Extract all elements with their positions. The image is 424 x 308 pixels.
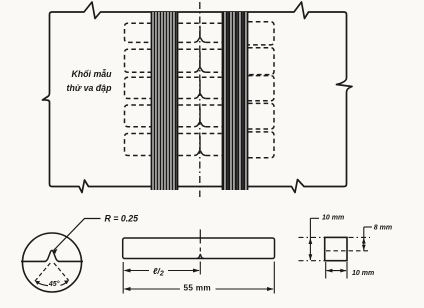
- specimen row 2 right box (dashed): [248, 48, 274, 75]
- detail notch profile: [45, 250, 59, 261]
- 10 mm left dimension: [299, 218, 325, 260]
- svg-text:8 mm: 8 mm: [374, 225, 392, 232]
- notch depth dashed line: [326, 250, 369, 252]
- specimen row 4 right box (dashed): [248, 103, 274, 129]
- notch symbol row 3 (bump on centerline): [194, 80, 205, 99]
- 8 mm right dimension: [349, 227, 373, 251]
- specimen row 4 left box (dashed): [125, 105, 152, 127]
- dimension 55 mm: [125, 262, 275, 294]
- specimen row 2 middle edges (dashed): [179, 48, 222, 50]
- bar centerline ticks: [199, 230, 201, 244]
- plate centerline (dash-dot vertical): [199, 2, 201, 197]
- svg-text:55 mm: 55 mm: [184, 284, 211, 293]
- specimen row 4 middle edges (dashed): [179, 104, 222, 106]
- notch symbol row 2 (bump on centerline): [194, 52, 205, 73]
- 45 degree dimension arc with arrows: [36, 282, 48, 286]
- notch symbol row 4 (bump on centerline): [194, 108, 205, 127]
- dimension L/2: [123, 262, 200, 294]
- notch symbol row 5 (bump on centerline): [194, 136, 205, 156]
- specimen row 5 left box (dashed): [125, 134, 152, 156]
- svg-text:10 mm: 10 mm: [352, 270, 374, 277]
- specimen row 5 right box (dashed): [248, 132, 274, 158]
- specimen row 3 middle edges (dashed): [179, 76, 222, 78]
- svg-text:R = 0.25: R = 0.25: [105, 214, 139, 224]
- 45 degree dashed lines: [35, 263, 51, 282]
- 10 mm bottom dimension: [326, 262, 347, 279]
- svg-text:45°: 45°: [48, 280, 60, 288]
- svg-text:thử va đập: thử va đập: [67, 83, 113, 93]
- svg-text:10 mm: 10 mm: [322, 215, 344, 222]
- weld band left (hatched): [152, 12, 178, 190]
- specimen row 1 middle edges (dashed): [179, 22, 222, 24]
- svg-text:Khối mẫu: Khối mẫu: [71, 69, 112, 79]
- cross-section square: [325, 237, 347, 260]
- bar notch bump (bottom edge): [197, 255, 204, 259]
- specimen row 2 left box (dashed): [125, 49, 152, 72]
- specimen row 1 right box (dashed): [248, 22, 274, 45]
- detail circle: [23, 233, 82, 292]
- notch symbol row 1 (bump on centerline): [194, 26, 205, 43]
- leader line to notch: [54, 219, 101, 251]
- side-view bar: [123, 238, 275, 259]
- weld band right (hatched): [223, 12, 249, 190]
- detail chord line: [21, 260, 46, 262]
- specimen row 3 left box (dashed): [125, 77, 152, 98]
- plate outline with break lines: [43, 2, 353, 193]
- specimen row 1 left box (dashed): [125, 23, 152, 42]
- specimen row 3 right box (dashed): [248, 76, 274, 101]
- specimen row 5 middle edges (dashed): [179, 133, 222, 135]
